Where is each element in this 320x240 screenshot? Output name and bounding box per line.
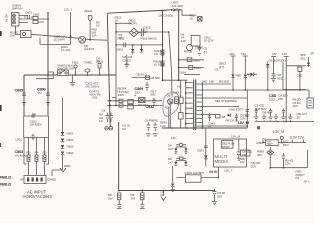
wire: R812 branch xyxy=(116,22,132,24)
box SE3 xyxy=(241,150,251,156)
svg-text:R8 680: R8 680 xyxy=(151,76,161,80)
svg-text:F801: F801 xyxy=(72,61,79,65)
switch SW801 xyxy=(58,70,69,76)
wire: main left vertical xyxy=(107,13,110,127)
capacitor C851 xyxy=(204,146,208,148)
ground E801 xyxy=(60,158,66,172)
ground cups pair xyxy=(146,134,157,136)
svg-text:680: 680 xyxy=(151,93,156,97)
svg-text:(AC 250V): (AC 250V) xyxy=(86,85,99,89)
svg-text:TH801: TH801 xyxy=(84,61,93,65)
bridge diode D803 xyxy=(61,145,65,148)
svg-text:C8: C8 xyxy=(153,37,157,41)
wire: 13VM drop xyxy=(238,139,240,151)
wire: bulk rail y105.5 xyxy=(107,105,162,107)
wire: primary top xyxy=(163,79,188,81)
svg-text:D806: D806 xyxy=(193,59,200,63)
electrolytic C823 xyxy=(106,113,110,123)
snubber rail 2 xyxy=(179,67,204,69)
capacitor on x247 xyxy=(245,110,249,119)
svg-text:JP x: JP x xyxy=(304,180,310,184)
svg-text:D8: D8 xyxy=(159,14,163,18)
wire to vertical feed xyxy=(38,19,48,22)
svg-text:SE1 STR(F6654): SE1 STR(F6654) xyxy=(215,99,237,103)
svg-text:(A234)?: (A234)? xyxy=(84,47,94,51)
svg-text:D803: D803 xyxy=(67,145,74,149)
svg-text:S4P-VH: S4P-VH xyxy=(12,7,22,11)
ground Y-caps xyxy=(22,98,50,104)
svg-text:6.3V_M: 6.3V_M xyxy=(273,130,285,134)
wire: x178.7 lower xyxy=(180,80,182,128)
svg-text:13V_T: 13V_T xyxy=(224,169,233,173)
svg-text:SP: SP xyxy=(310,52,314,56)
diode D871 xyxy=(171,184,174,187)
svg-text:13V_1: 13V_1 xyxy=(64,8,73,12)
svg-text:1DD: 1DD xyxy=(269,98,276,102)
wire: right vertical x247 xyxy=(246,90,248,128)
diode D824 xyxy=(307,63,310,66)
svg-text:SW: SW xyxy=(10,34,15,38)
svg-text:1D 1DV: 1D 1DV xyxy=(204,39,215,43)
junction dot bottom xyxy=(142,190,144,192)
svg-text:2W: 2W xyxy=(131,196,136,200)
electrolytic C882 xyxy=(140,205,145,209)
ground row right mid xyxy=(254,114,292,120)
capacitor C872 xyxy=(213,189,217,198)
wire: secondary rail y84 xyxy=(203,83,232,85)
wire: main switch vertical x178.7 xyxy=(178,10,180,81)
wire: D807 to FB xyxy=(177,10,194,15)
capacitor C842 xyxy=(235,114,238,122)
transformer T801 core xyxy=(194,80,196,131)
svg-text:47: 47 xyxy=(208,125,212,129)
electrolytic C808 xyxy=(145,82,149,91)
svg-text:D804: D804 xyxy=(67,151,74,155)
wire: relay rails xyxy=(31,34,107,44)
svg-text:E801: E801 xyxy=(64,164,71,168)
wire: reg rails xyxy=(263,139,306,142)
rail3 xyxy=(203,106,240,108)
svg-text:D802: D802 xyxy=(67,138,74,142)
svg-text:R813: R813 xyxy=(194,66,201,70)
svg-text:R3: R3 xyxy=(27,151,31,155)
circled terminals xyxy=(105,126,109,130)
svg-text:9P: 9P xyxy=(20,178,24,182)
svg-text:13V_M: 13V_M xyxy=(231,135,241,139)
svg-text:FB8.@: FB8.@ xyxy=(0,182,12,187)
svg-text:R8 4D7: R8 4D7 xyxy=(263,111,273,115)
svg-text:T8: T8 xyxy=(177,85,181,89)
svg-text:FB8.@: FB8.@ xyxy=(0,175,12,180)
scan artifact blobs xyxy=(0,31,2,36)
wire: BD to cap xyxy=(116,31,162,33)
relay RL801 xyxy=(21,31,32,38)
svg-text:L801: L801 xyxy=(16,138,23,142)
capacitor C813 xyxy=(198,46,201,51)
diode D842 xyxy=(228,114,231,117)
wire: rail y114.5 xyxy=(203,114,216,116)
svg-text:0.22: 0.22 xyxy=(160,124,166,128)
svg-text:R8 1/4: R8 1/4 xyxy=(209,170,218,174)
resistor R819 xyxy=(161,61,164,66)
wire from CN801 pins xyxy=(19,16,33,23)
svg-text:24D: 24D xyxy=(202,80,208,84)
capacitor row right mid xyxy=(255,109,285,115)
svg-text:1D 16PA: 1D 16PA xyxy=(54,38,66,42)
rail2 xyxy=(203,97,248,99)
wire: left column x24 xyxy=(23,75,25,116)
capacitor C816 xyxy=(124,43,126,48)
ferrite FB810 xyxy=(139,98,146,103)
electrolytic C881 xyxy=(117,205,122,209)
ground E802 xyxy=(70,75,76,86)
opto PC801 xyxy=(179,143,182,146)
electrolytic C813b xyxy=(152,98,156,106)
wire black drop xyxy=(89,21,91,40)
ground D871 xyxy=(171,190,175,192)
wire: top rail 13V xyxy=(107,10,173,14)
filter L802 xyxy=(33,17,38,20)
wire: filter to AC connector xyxy=(24,138,49,157)
svg-text:8D2: 8D2 xyxy=(277,76,283,80)
svg-text:2W: 2W xyxy=(108,196,113,200)
svg-text:R8 D8: R8 D8 xyxy=(184,50,192,54)
wire: resistors to connector xyxy=(24,156,49,176)
rail4 xyxy=(203,125,248,127)
svg-text:1/2W: 1/2W xyxy=(117,93,124,97)
wire: primary gnd rail y128 xyxy=(162,127,247,129)
bridge diode D804 xyxy=(61,152,65,155)
wire: hot rail y75 xyxy=(24,74,116,76)
svg-text:(FR-105): (FR-105) xyxy=(172,4,183,8)
transistor Q803 xyxy=(187,45,193,51)
IC801 rails: rail1 xyxy=(203,89,310,91)
svg-text:C8 R8(P8): C8 R8(P8) xyxy=(145,119,158,123)
wire: link to left vertical xyxy=(112,97,116,99)
resistor R881 xyxy=(118,193,121,200)
capacitor C861 xyxy=(282,153,286,162)
ground C872 xyxy=(212,198,217,205)
svg-text:D8 (EGP2DD): D8 (EGP2DD) xyxy=(269,59,287,63)
wire: left of MM box parts vertical xyxy=(205,128,207,166)
wire: right feed vertical x48 xyxy=(47,13,49,116)
ground mid xyxy=(124,55,129,68)
diode D823 xyxy=(266,64,269,67)
svg-text:R5: R5 xyxy=(43,151,47,155)
svg-text:R1: R1 xyxy=(296,176,300,180)
svg-text:18D: 18D xyxy=(209,80,215,84)
svg-text:R8D: R8D xyxy=(236,74,243,78)
svg-text:IC801 KIA78R?: IC801 KIA78R? xyxy=(185,171,205,175)
junction dots rail xyxy=(171,127,173,129)
electrolytic C824 xyxy=(109,113,113,123)
resistor R810 xyxy=(119,99,123,102)
wire: bridge to connector xyxy=(52,155,63,176)
terminal (black) xyxy=(88,16,92,21)
line filter box L801 xyxy=(24,116,49,138)
svg-text:C8: C8 xyxy=(215,68,219,72)
capacitor C815 xyxy=(138,29,146,37)
wire: 13V_M rail xyxy=(255,121,314,123)
resistor R817 xyxy=(161,50,164,55)
svg-text:1N?: 1N? xyxy=(168,147,174,151)
capacitor C830 xyxy=(271,73,276,82)
svg-text:CN802: CN802 xyxy=(47,178,56,182)
snubber rail 3 xyxy=(184,74,200,76)
svg-text:STR?: STR? xyxy=(222,145,230,149)
terminal 6.3VM xyxy=(280,136,283,139)
svg-text:13V_M: 13V_M xyxy=(238,120,249,125)
svg-text:MEDIA: MEDIA xyxy=(215,159,229,164)
svg-text:C8D: C8D xyxy=(297,74,304,78)
svg-text:(RGP): (RGP) xyxy=(129,22,137,26)
opto PC802 xyxy=(180,157,183,160)
ground clamp xyxy=(198,54,201,56)
red highlight circle xyxy=(163,93,180,117)
diode D812 xyxy=(140,49,143,52)
svg-text:4D7: 4D7 xyxy=(257,153,263,157)
wire: rail y45 xyxy=(116,44,163,46)
heatsink connector right edge xyxy=(307,98,313,108)
resistor R843 xyxy=(216,115,221,118)
resistor R813 xyxy=(189,66,193,70)
capacitor C810 xyxy=(31,113,35,117)
regulator KIA box xyxy=(266,140,279,146)
svg-text:3D3: 3D3 xyxy=(300,56,306,60)
svg-text:C805: C805 xyxy=(15,88,25,93)
connector CN801 xyxy=(12,13,20,27)
wire: bottom right rail xyxy=(270,150,307,168)
svg-text:AD?: AD? xyxy=(165,106,171,110)
svg-text:472: 472 xyxy=(37,91,42,95)
IC801 regulator xyxy=(185,175,201,182)
svg-text:R4: R4 xyxy=(35,151,39,155)
svg-text:1K?: 1K? xyxy=(168,160,173,164)
diode D821 xyxy=(244,75,247,78)
wire 13V_1 drop xyxy=(70,12,72,38)
wire: bulk rail y100.8 xyxy=(107,100,162,102)
wire: 13V rail to edge xyxy=(283,62,306,90)
svg-text:C801: C801 xyxy=(25,11,32,15)
diode D807 xyxy=(173,8,176,11)
capacitor C801 xyxy=(24,15,33,19)
snubber box R851 xyxy=(178,97,183,103)
resistor R882 xyxy=(141,193,144,200)
svg-text:6.3V 12V: 6.3V 12V xyxy=(290,136,304,140)
wire CN801 to RL801 xyxy=(16,26,21,35)
wire: IC in left xyxy=(173,166,186,183)
fuse tick xyxy=(47,12,50,14)
svg-text:AC90V*AC264V: AC90V*AC264V xyxy=(23,194,53,199)
wire: bottom rail y191 xyxy=(119,122,215,191)
wire: IC out xyxy=(201,167,219,178)
svg-text:1W 40DV: 1W 40DV xyxy=(30,123,43,127)
wire: x162.5 vertical xyxy=(162,10,164,80)
resistor R811 xyxy=(119,104,123,107)
svg-text:R8D: R8D xyxy=(257,141,264,145)
capacitor C843 xyxy=(208,114,211,122)
connector CN802 AC input xyxy=(24,176,46,184)
multimedia box xyxy=(214,139,247,167)
svg-text:C851: C851 xyxy=(197,149,204,153)
transistor Q808 xyxy=(168,99,173,104)
capacitor C811 xyxy=(31,134,34,140)
clamp box D805 xyxy=(191,36,200,47)
ground arrow mid-bottom xyxy=(161,191,166,201)
transformer T801 secondary pin line xyxy=(202,83,204,126)
wire: sense to rail xyxy=(168,107,170,128)
junction dots various xyxy=(23,10,301,192)
snubber box C852 xyxy=(178,113,183,119)
svg-text:GND STR?: GND STR? xyxy=(229,107,244,111)
svg-text:D801: D801 xyxy=(67,132,74,136)
svg-text:(black): (black) xyxy=(84,9,92,13)
transistor Q801 xyxy=(79,36,86,43)
snubber rail 1 xyxy=(179,59,204,61)
bridge diode D802 xyxy=(61,139,65,142)
part on y76 xyxy=(132,77,150,79)
diode D851 xyxy=(204,156,208,159)
capacitor C831 xyxy=(298,67,302,71)
svg-text:1K 1/W: 1K 1/W xyxy=(61,48,70,52)
bridge diode D801 xyxy=(62,98,64,132)
diode D822 xyxy=(250,73,253,76)
regulator SE2 box xyxy=(222,141,234,149)
svg-text:AC-IN: AC-IN xyxy=(5,14,9,22)
svg-text:2D2: 2D2 xyxy=(92,96,98,100)
capacitor C860 xyxy=(237,150,241,160)
svg-text:L802: L802 xyxy=(33,13,40,17)
bridge BD801 xyxy=(129,28,138,37)
svg-text:1W 400V: 1W 400V xyxy=(15,154,28,158)
junction dots 13VM xyxy=(277,121,279,123)
svg-text:(F?): (F?) xyxy=(219,65,224,69)
svg-text:C8 1D1: C8 1D1 xyxy=(164,14,174,18)
svg-text:D811: D811 xyxy=(117,48,124,52)
svg-text:C8: C8 xyxy=(102,109,106,113)
wire: switch branch xyxy=(36,72,53,79)
svg-text:7.3W: 7.3W xyxy=(248,74,255,78)
svg-text:(C): (C) xyxy=(144,29,148,33)
diode D806 xyxy=(187,58,192,62)
polarity mark xyxy=(257,127,260,130)
wire: jog to transformer xyxy=(162,32,173,97)
svg-text:R815: R815 xyxy=(118,37,125,41)
transformer T801 primary pin line xyxy=(185,80,187,128)
svg-text:78R?: 78R? xyxy=(267,142,274,146)
electrolytic C827 xyxy=(153,123,157,132)
wire: x116 vertical xyxy=(115,23,117,106)
svg-text:(F): (F) xyxy=(204,50,208,54)
svg-text:C814: C814 xyxy=(179,71,186,75)
svg-text:R1D: R1D xyxy=(283,143,290,147)
svg-text:R8 2DD: R8 2DD xyxy=(219,80,230,84)
transistor Q860 xyxy=(267,150,274,155)
